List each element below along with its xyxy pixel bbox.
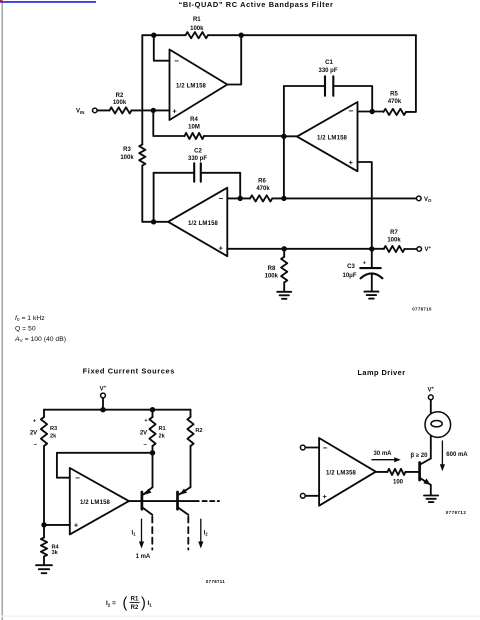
- capacitor C2 plates: [194, 163, 201, 181]
- node bias / C3 / R7: [369, 246, 374, 251]
- svg-text:+: +: [172, 106, 177, 115]
- wire emitter to ground: [430, 485, 432, 495]
- arrowhead Q2 emitter (PNP): [180, 489, 188, 495]
- ground below Q3: [424, 496, 438, 503]
- wire U3 inverting to R6: [227, 197, 250, 199]
- resistor R1 (2k middle): [149, 417, 155, 446]
- wire base rail dashed continuation: [203, 500, 220, 502]
- wire R4 to ground: [43, 557, 45, 565]
- capacitor C3 bottom wire to ground: [371, 274, 373, 292]
- svg-text:1/2 LM158: 1/2 LM158: [317, 136, 348, 142]
- svg-text:+: +: [219, 243, 224, 252]
- resistor R6: [250, 195, 272, 201]
- svg-text:−: −: [174, 57, 179, 66]
- wire C2 left to U3 output: [153, 173, 155, 222]
- node U2 out: [281, 134, 286, 139]
- wire inverting input: [305, 447, 319, 449]
- svg-text:I2: I2: [204, 531, 209, 537]
- transistor Q2 base bar: [176, 492, 179, 509]
- page left border line: [2, 1, 3, 620]
- svg-text:VO: VO: [424, 197, 432, 203]
- junction dots: [151, 33, 375, 252]
- svg-text:I2 =: I2 =: [106, 600, 116, 607]
- transistor Q1 emitter: [144, 487, 153, 494]
- wire non-inverting input: [305, 495, 319, 497]
- node V+ rail: [100, 407, 105, 412]
- wire top supply rail: [44, 409, 191, 411]
- svg-text:+: +: [144, 418, 147, 424]
- wire V+ stub to lamp: [430, 400, 432, 414]
- svg-text:2V: 2V: [140, 430, 147, 436]
- svg-text:R1: R1: [193, 17, 201, 23]
- top blue rule: [0, 1, 96, 3]
- current arrow I2: [200, 519, 202, 543]
- svg-text:Q = 50: Q = 50: [15, 325, 36, 332]
- svg-text:R2: R2: [195, 428, 202, 434]
- op-amp U2 (points left): [297, 102, 358, 171]
- transistor Q2 collector: [178, 508, 188, 515]
- svg-text:600 mA: 600 mA: [446, 452, 468, 458]
- wire non-inverting input to divider: [44, 524, 70, 526]
- svg-text:100k: 100k: [113, 100, 127, 106]
- arrowhead I1: [139, 542, 144, 549]
- svg-text:10μF: 10μF: [342, 273, 356, 279]
- resistor R4 (3k): [41, 538, 47, 557]
- svg-text:R2: R2: [131, 605, 139, 611]
- svg-text:): ): [141, 595, 146, 611]
- wire U2 output vertical (C1 left / VO node): [283, 86, 285, 199]
- resistor R3 (2k left): [41, 417, 47, 446]
- wire VIN to U1 non-inverting input: [97, 109, 169, 111]
- svg-text:470k: 470k: [388, 99, 402, 105]
- svg-text:0778710: 0778710: [412, 306, 432, 311]
- wire R7 to V+ terminal: [405, 248, 417, 250]
- op-amp U5: [319, 438, 376, 506]
- wire U1 output to top rail: [227, 35, 241, 84]
- svg-text:R6: R6: [258, 179, 266, 185]
- wire base rail: [129, 500, 199, 502]
- transistor Q1 collector: [143, 508, 153, 515]
- terminal VIN: [93, 108, 98, 113]
- terminal V+: [417, 247, 422, 252]
- wire left branch to R4: [43, 446, 45, 538]
- wire right branch top: [190, 410, 192, 417]
- svg-text:+: +: [323, 492, 328, 501]
- terminal V+ circuit2: [101, 393, 106, 398]
- svg-text:100: 100: [393, 479, 404, 485]
- wire op-amp output to base resistor: [376, 471, 388, 473]
- node divider / + input: [41, 522, 46, 527]
- wire bias rail (U3 + input, R8, C3, R7): [227, 248, 383, 250]
- svg-text:1/2 LM158: 1/2 LM158: [80, 500, 111, 506]
- arrowhead 600 mA: [440, 464, 445, 471]
- node U1+ / R2 R3 R4: [151, 108, 156, 113]
- ground below C3: [364, 292, 378, 299]
- capacitor C1 plates: [325, 76, 333, 96]
- ground below R8: [277, 292, 291, 299]
- wire U2 inverting input: [358, 111, 384, 113]
- transistor Q2 emitter: [179, 487, 190, 494]
- svg-text:R5: R5: [390, 92, 398, 98]
- current arrow 30 mA line: [372, 459, 396, 461]
- wire stub to U1 inverting input: [154, 35, 170, 61]
- wire R4 branch: [153, 110, 284, 136]
- resistor R2: [110, 107, 132, 113]
- svg-text:β ≥ 20: β ≥ 20: [411, 453, 429, 459]
- svg-text:R4: R4: [190, 117, 198, 123]
- svg-text:R1: R1: [159, 426, 166, 432]
- wire R5 to top rail: [406, 35, 416, 112]
- arrowhead I2: [198, 542, 203, 549]
- arrowhead Q1 emitter (PNP): [144, 489, 152, 495]
- svg-text:2k: 2k: [159, 434, 166, 440]
- svg-text:R7: R7: [390, 230, 398, 236]
- svg-text:+: +: [74, 521, 79, 530]
- node U2- / C1 / R5: [370, 109, 375, 114]
- resistor R7: [384, 246, 405, 252]
- arrowhead Q3 emitter (NPN): [423, 478, 430, 484]
- wire U2 non-inverting input down to bias rail: [358, 162, 372, 249]
- svg-text:R3: R3: [50, 426, 57, 432]
- svg-text:10M: 10M: [188, 125, 200, 131]
- wire resistor to base: [406, 471, 420, 473]
- resistor R8: [281, 257, 287, 283]
- svg-text:VIN: VIN: [76, 109, 84, 115]
- transistor Q3 emitter: [420, 478, 431, 485]
- node U1- / R1 left: [151, 33, 156, 38]
- wire R1 bottom to emitter Q1: [152, 446, 154, 487]
- svg-text:C3: C3: [347, 264, 355, 270]
- resistor 100 (base): [388, 469, 406, 475]
- svg-text:3k: 3k: [52, 550, 59, 556]
- svg-text:1 mA: 1 mA: [136, 554, 151, 560]
- transistor Q3 base bar: [418, 463, 421, 481]
- wire left branch top: [43, 410, 45, 417]
- wire R8 top stub: [283, 249, 285, 257]
- svg-text:30 mA: 30 mA: [373, 451, 392, 457]
- ground below R4: [36, 565, 52, 573]
- current arrow 600 mA line: [441, 441, 443, 466]
- transistor Q1 base bar: [141, 492, 144, 509]
- svg-text:−: −: [323, 444, 328, 453]
- svg-text:100k: 100k: [120, 155, 134, 161]
- arrowhead 30 mA: [394, 457, 401, 462]
- node VO / R6: [281, 196, 286, 201]
- wire lamp to collector: [430, 436, 432, 458]
- resistor R4: [185, 133, 205, 139]
- node U1 out / R1 right: [239, 33, 244, 38]
- wire top feedback rail: [142, 34, 416, 36]
- svg-text:C2: C2: [194, 148, 202, 154]
- svg-text:1/2 LM358: 1/2 LM358: [326, 471, 357, 477]
- svg-text:470k: 470k: [256, 186, 270, 192]
- terminal VO: [417, 196, 422, 201]
- svg-text:Lamp Driver: Lamp Driver: [357, 368, 405, 377]
- resistor R5: [384, 109, 407, 115]
- svg-text:−: −: [34, 443, 38, 449]
- svg-text:100k: 100k: [190, 26, 204, 32]
- node U3 output / C2 / R3: [151, 219, 156, 224]
- svg-text:+: +: [33, 418, 36, 424]
- svg-text:C1: C1: [325, 60, 333, 66]
- wire U3 output node: [142, 221, 168, 223]
- wire feedback to inverting input: [57, 453, 153, 478]
- lamp bulb: [425, 412, 451, 438]
- svg-text:+: +: [349, 158, 354, 167]
- svg-text:(: (: [123, 595, 128, 611]
- wire R8 to ground: [283, 283, 285, 292]
- svg-text:−: −: [75, 474, 80, 483]
- wire U2 output to apex: [284, 135, 297, 137]
- op-amp U1: [170, 50, 228, 121]
- svg-text:100k: 100k: [265, 274, 279, 280]
- resistor R3: [139, 145, 145, 166]
- svg-text:330 pF: 330 pF: [188, 156, 207, 162]
- wire V+ stub: [102, 398, 104, 410]
- lamp filament: [431, 421, 442, 427]
- node bias / R8: [282, 246, 287, 251]
- transistor Q3 collector: [420, 459, 431, 465]
- wire R2 bottom to emitter Q2: [190, 446, 192, 487]
- svg-text:0778711: 0778711: [206, 579, 225, 584]
- node R1 bottom / feedback / emitter: [150, 450, 155, 455]
- svg-text:“BI-QUAD” RC Active Bandpass F: “BI-QUAD” RC Active Bandpass Filter: [179, 0, 334, 9]
- current arrow I1: [141, 519, 143, 543]
- svg-text:R2: R2: [116, 93, 124, 99]
- svg-text:2V: 2V: [30, 430, 37, 436]
- formula I2 = (R1/R2) I1: [106, 595, 152, 611]
- op-amp U3 (points left): [168, 188, 227, 257]
- capacitor C3 plates: [360, 267, 380, 269]
- wire VO line: [272, 197, 416, 199]
- wire Q1 collector dashed: [151, 517, 153, 550]
- svg-text:R3: R3: [123, 147, 131, 153]
- svg-text:0778712: 0778712: [446, 510, 467, 515]
- wire middle branch top: [152, 410, 154, 417]
- capacitor C2 wires: [154, 173, 241, 199]
- node U3- / C2 / R6: [238, 196, 243, 201]
- svg-text:R1: R1: [131, 596, 139, 602]
- svg-text:2k: 2k: [50, 434, 57, 440]
- wire Q2 collector dashed: [187, 517, 189, 550]
- svg-text:−: −: [348, 107, 353, 116]
- top-left red mark: [0, 0, 3, 1]
- op-amp U4: [70, 468, 129, 534]
- capacitor C1 wires: [284, 86, 372, 112]
- svg-text:I1: I1: [132, 531, 137, 537]
- svg-text:−: −: [143, 443, 147, 449]
- resistor R1: [186, 32, 209, 38]
- resistor R2 (right): [187, 417, 193, 446]
- svg-text:Fixed Current Sources: Fixed Current Sources: [83, 367, 175, 376]
- capacitor C3 top wire: [371, 249, 373, 268]
- bottom faint rule: [0, 615, 480, 617]
- terminal V+ lamp: [428, 395, 433, 400]
- svg-text:R8: R8: [268, 266, 276, 272]
- svg-text:−: −: [218, 194, 223, 203]
- svg-text:100k: 100k: [387, 237, 401, 243]
- wire left vertical (R3 branch): [141, 35, 143, 222]
- node R1 top: [150, 407, 155, 412]
- svg-text:1/2 LM158: 1/2 LM158: [188, 221, 219, 227]
- terminal non-inverting input: [300, 493, 305, 498]
- terminal inverting input: [300, 445, 305, 450]
- svg-text:330 pF: 330 pF: [318, 68, 337, 74]
- junction dots circuit 2: [41, 407, 155, 528]
- svg-text:1/2 LM158: 1/2 LM158: [176, 83, 207, 89]
